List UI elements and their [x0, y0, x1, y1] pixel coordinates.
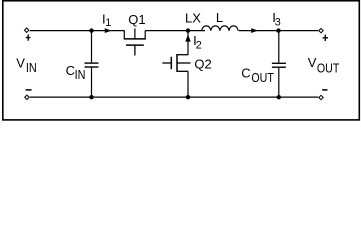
- label Q2: [194, 57, 211, 72]
- svg-text:Q2: Q2: [194, 57, 211, 72]
- wire top rail mid (Q1 to inductor): [145, 30, 205, 32]
- svg-text:3: 3: [275, 16, 281, 28]
- transistor Q1: [124, 28, 146, 55]
- wire top rail left (VIN+ to Q1): [30, 30, 125, 32]
- svg-text:L: L: [216, 10, 223, 25]
- label CIN: [66, 63, 86, 82]
- label VIN: [16, 55, 37, 75]
- node COUT tap bottom: [277, 95, 281, 99]
- node Q2 source bottom: [186, 95, 190, 99]
- svg-text:LX: LX: [185, 10, 201, 25]
- node I3 / COUT tap top: [276, 28, 280, 32]
- label LX: [185, 10, 201, 25]
- label VOUT: [308, 55, 340, 76]
- svg-text:IN: IN: [75, 67, 86, 82]
- wire COUT top lead: [278, 31, 280, 63]
- svg-text:C: C: [241, 65, 250, 80]
- terminal VIN-: [25, 95, 29, 99]
- current arrow I3: [252, 29, 258, 33]
- svg-text:1: 1: [105, 17, 111, 29]
- inductor L: [202, 26, 238, 31]
- wire Q2 drain (LX down): [187, 31, 189, 55]
- label I1: [102, 12, 111, 30]
- label I2: [193, 33, 202, 51]
- current arrow I2: [186, 35, 191, 41]
- svg-text:Q1: Q1: [128, 12, 145, 27]
- wire CIN bottom lead: [91, 68, 93, 98]
- svg-text:IN: IN: [26, 60, 37, 75]
- terminal VOUT-: [319, 95, 323, 99]
- label I3: [272, 10, 281, 28]
- wire COUT bottom lead: [278, 68, 280, 97]
- wire top rail right (inductor to VOUT+): [239, 30, 318, 32]
- svg-text:OUT: OUT: [317, 62, 339, 76]
- label Q1: [128, 12, 145, 27]
- svg-text:V: V: [16, 55, 25, 70]
- terminal VIN+: [24, 28, 28, 32]
- svg-text:2: 2: [196, 40, 202, 52]
- label L: [216, 10, 223, 25]
- wire bottom rail: [30, 96, 318, 98]
- current arrow I1: [105, 29, 111, 33]
- terminal VOUT+: [319, 28, 323, 32]
- svg-text:C: C: [66, 63, 75, 78]
- minus sign VIN: [26, 89, 32, 91]
- node LX: [186, 28, 190, 32]
- label COUT: [241, 65, 274, 85]
- plus sign VIN: [26, 35, 31, 41]
- svg-text:V: V: [308, 55, 317, 70]
- node CIN tap bottom: [89, 95, 93, 99]
- node CIN tap top: [89, 28, 93, 32]
- capacitor CIN: [85, 63, 99, 67]
- wire CIN top lead: [91, 31, 93, 63]
- transistor Q2: [162, 54, 190, 72]
- minus sign VOUT: [322, 89, 327, 91]
- capacitor COUT: [272, 63, 286, 67]
- wire Q2 source (down to bottom rail): [187, 71, 189, 97]
- svg-text:OUT: OUT: [251, 71, 273, 85]
- plus sign VOUT: [323, 35, 328, 41]
